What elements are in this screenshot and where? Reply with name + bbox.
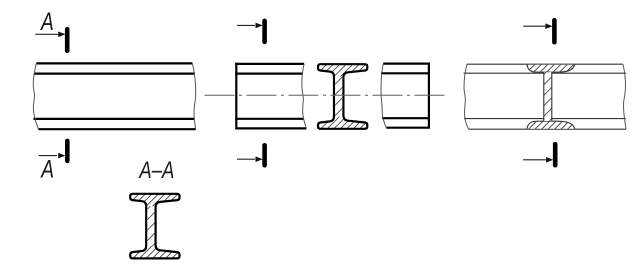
cutting-plane bar right-top <box>552 20 557 42</box>
left beam inner bottom flange line <box>33 118 194 120</box>
left beam break line left <box>33 63 38 129</box>
cutting-plane arrow middle-top <box>237 23 263 29</box>
middle view right segment break line <box>381 64 386 128</box>
cutting-plane arrow middle-bottom <box>237 156 263 162</box>
cutting-plane bar right-bottom <box>553 144 558 165</box>
cutting-plane bar middle-top <box>262 21 267 42</box>
middle view left segment outline <box>235 63 306 129</box>
I-beam cross-section between breaks (hatched) <box>318 64 367 129</box>
svg-text:A: A <box>39 8 53 36</box>
web side lines <box>543 72 545 121</box>
left beam side view: top edge <box>33 63 195 129</box>
cutting-plane arrow right-bottom <box>523 157 553 163</box>
cutting-plane bar top-left <box>65 29 70 51</box>
middle view left segment break line <box>302 64 307 128</box>
section A-A I-beam (hatched) <box>130 194 179 259</box>
right beam side view (thin lines) <box>464 64 627 129</box>
cutting-plane arrow bottom-left <box>39 153 66 159</box>
superimposed section top flange (right view) <box>527 65 575 73</box>
cutting-plane arrow top-left <box>35 32 65 38</box>
left beam inner top flange line <box>34 72 195 74</box>
right beam break line right <box>623 64 626 129</box>
cutting-plane arrow right-top <box>523 23 552 29</box>
cutting-plane bar middle-bottom <box>262 145 267 165</box>
left beam break line right <box>192 63 195 129</box>
cutting-plane bar bottom-left <box>65 141 70 161</box>
middle view right segment outline <box>381 63 430 128</box>
centerline dash-dot axis <box>205 94 448 96</box>
superimposed section bottom flange (right view) <box>527 121 575 129</box>
web hatch (sparser) of middle section <box>335 77 342 117</box>
svg-text:A: A <box>40 155 54 183</box>
svg-text:A–A: A–A <box>138 157 175 184</box>
superimposed section web (right view) <box>544 72 552 121</box>
web hatch (sparser) of section A-A <box>147 206 154 246</box>
right beam break line left <box>464 64 469 129</box>
left beam bottom edge <box>39 128 196 130</box>
